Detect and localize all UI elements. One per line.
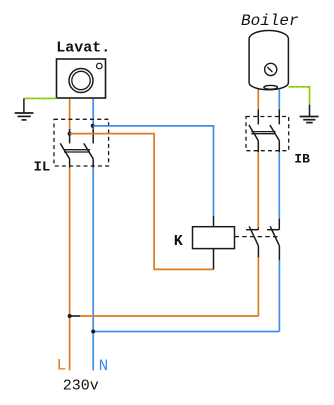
svg-text:N: N	[99, 357, 109, 375]
IL switch dashed box	[54, 119, 109, 166]
svg-text:L: L	[57, 357, 67, 375]
wire blue IB to contact K2	[278, 152, 280, 218]
relay contact K1	[246, 226, 258, 257]
relay linkage dashed line	[235, 236, 278, 238]
wire orange machine to IL	[69, 99, 71, 129]
N bus wire	[93, 331, 279, 333]
wire orange boiler to IB	[257, 90, 259, 110]
wire black relay bottom stub	[213, 249, 215, 270]
boiler outlet ellipse	[264, 85, 278, 89]
svg-text:Boiler: Boiler	[241, 12, 299, 30]
wire orange L to relay coil (horiz, vert, horiz)	[70, 134, 214, 270]
wire orange contact K1 to L bus	[257, 257, 259, 316]
wire blue IL down to N terminal	[92, 168, 94, 371]
wire blue boiler to IB	[278, 89, 280, 109]
svg-text:K: K	[174, 233, 183, 250]
wire orange IB to contact K1	[257, 152, 259, 227]
boiler body	[249, 31, 288, 90]
wire blue machine to IL	[92, 99, 94, 129]
wire black relay top stub	[213, 216, 215, 227]
node dot L bus	[68, 314, 72, 318]
washing machine icon	[57, 59, 106, 98]
svg-text:IL: IL	[34, 160, 51, 176]
boiler thermostat	[265, 63, 277, 75]
node dot N junction in IL	[91, 124, 95, 128]
IB switch dashed box	[246, 117, 289, 151]
wire orange IL down to L terminal	[69, 168, 71, 371]
earth wire right (green/yellow)	[288, 87, 309, 105]
node dot L junction in IL	[68, 132, 72, 136]
relay contact K2	[267, 219, 279, 261]
switch IB poles	[249, 109, 279, 152]
wire blue contact K2 to N bus	[278, 260, 280, 331]
relay coil K	[193, 227, 235, 249]
node dot N bus	[91, 330, 95, 334]
svg-text:230v: 230v	[63, 378, 99, 395]
svg-text:IB: IB	[294, 151, 310, 166]
wire blue N to relay coil (horizontal + vertical)	[93, 126, 213, 216]
switch IL poles	[60, 134, 93, 168]
ground symbol left	[15, 98, 34, 120]
ground symbol right	[300, 105, 319, 123]
L bus wire	[70, 315, 80, 317]
earth wire left (green/yellow)	[24, 97, 57, 99]
svg-text:Lavat.: Lavat.	[56, 40, 110, 57]
